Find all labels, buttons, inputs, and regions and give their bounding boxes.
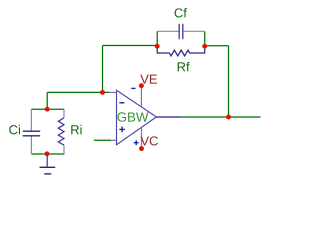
wire feedback right riser	[228, 46, 230, 117]
node dot Rf/Cf left	[155, 44, 160, 49]
label Cf	[175, 8, 187, 18]
op-amp U1 triangle	[117, 90, 157, 145]
resistor Ri	[58, 109, 64, 154]
wire feedback right top	[205, 45, 229, 47]
ground	[40, 154, 56, 174]
op-amp plus mark inside	[119, 127, 125, 133]
label GBW	[117, 112, 148, 121]
label Ci	[9, 125, 20, 135]
wire inverting input net	[47, 91, 109, 93]
capacitor Ci	[23, 109, 41, 154]
wire non-inverting stub	[94, 139, 111, 141]
wire Ci/Ri top rail	[31, 108, 64, 110]
wire left feedback riser	[102, 46, 104, 93]
op-amp minus mark inside	[119, 102, 124, 104]
node dot output junction	[226, 115, 231, 120]
capacitor Cf	[157, 24, 205, 39]
VC plus mark	[134, 140, 139, 145]
node dot inverting input	[100, 90, 105, 95]
resistor Rf	[157, 46, 205, 56]
node dot Ci/Ri top	[45, 107, 50, 112]
wire Cf right riser	[204, 31, 206, 46]
op-amp inverting input lead	[109, 91, 117, 93]
op-amp output lead	[156, 116, 181, 118]
VE minus mark	[131, 87, 135, 89]
node dot VE	[139, 83, 144, 88]
wire Cf left riser	[156, 31, 158, 46]
label Rf	[178, 62, 190, 71]
node dot VC	[139, 146, 144, 151]
op-amp VE pin	[140, 86, 142, 107]
node dot ground	[45, 151, 50, 156]
label VC	[140, 136, 158, 145]
op-amp VC pin	[141, 127, 143, 148]
label Ri	[71, 125, 81, 134]
wire output net	[182, 116, 261, 118]
wire drop to Ci/Ri rail	[46, 92, 48, 109]
op-amp non-inverting input lead	[111, 139, 116, 141]
node dot Rf/Cf right	[202, 44, 207, 49]
wire Ci/Ri bottom rail	[31, 153, 64, 155]
wire feedback top rail	[103, 45, 158, 47]
label VE	[140, 75, 157, 84]
